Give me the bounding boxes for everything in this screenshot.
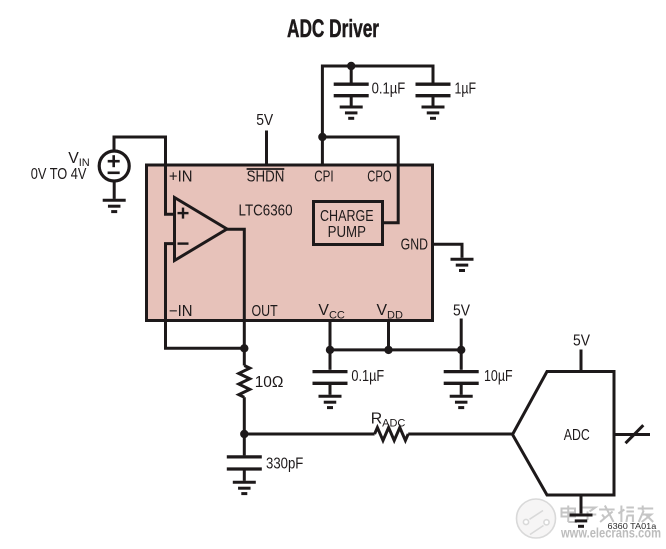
svg-text:6360 TA01a: 6360 TA01a	[608, 521, 657, 531]
svg-text:0V TO 4V: 0V TO 4V	[31, 166, 87, 183]
svg-text:PUMP: PUMP	[328, 224, 366, 241]
svg-text:CPI: CPI	[314, 168, 333, 185]
svg-text:ADC Driver: ADC Driver	[287, 15, 379, 43]
svg-text:1µF: 1µF	[455, 80, 477, 97]
svg-text:SHDN: SHDN	[247, 168, 285, 185]
svg-text:0.1µF: 0.1µF	[351, 368, 384, 385]
svg-text:OUT: OUT	[252, 303, 278, 320]
svg-text:CHARGE: CHARGE	[320, 208, 374, 225]
svg-text:10Ω: 10Ω	[255, 374, 284, 391]
svg-text:−IN: −IN	[169, 303, 193, 320]
svg-text:LTC6360: LTC6360	[239, 203, 293, 220]
svg-text:5V: 5V	[573, 333, 590, 350]
svg-text:0.1µF: 0.1µF	[372, 80, 406, 97]
svg-text:5V: 5V	[453, 303, 470, 320]
svg-text:10µF: 10µF	[484, 368, 513, 385]
svg-text:+IN: +IN	[169, 168, 193, 185]
svg-text:GND: GND	[401, 236, 428, 253]
svg-text:CPO: CPO	[367, 168, 391, 185]
svg-text:5V: 5V	[256, 112, 273, 129]
svg-text:ADC: ADC	[564, 427, 590, 444]
svg-text:330pF: 330pF	[266, 455, 304, 472]
